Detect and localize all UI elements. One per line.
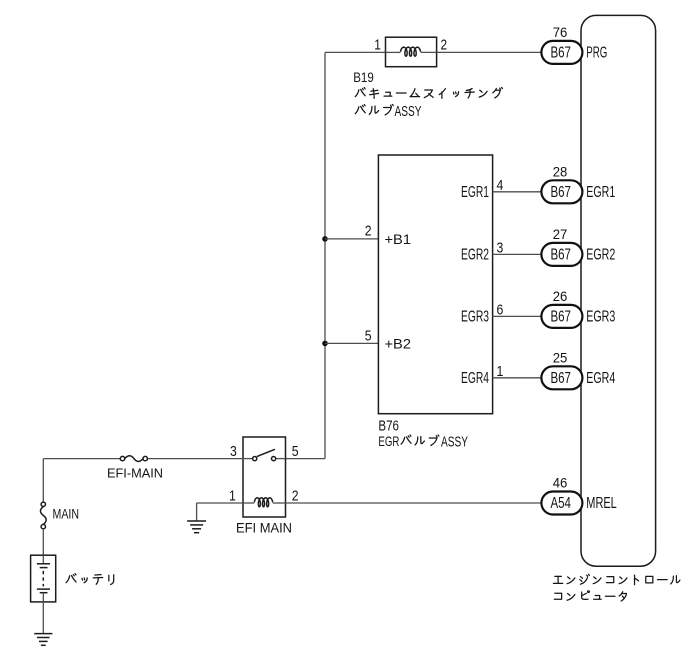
svg-text:EGR3: EGR3 <box>461 309 489 326</box>
relay switch contact left <box>253 457 257 461</box>
svg-text:26: 26 <box>553 289 568 304</box>
svg-text:2: 2 <box>292 487 299 504</box>
VSV B19 vacuum switching valve box <box>386 37 437 66</box>
svg-text:25: 25 <box>553 351 568 366</box>
wire B76 EGR3 to connector <box>493 315 542 317</box>
wire B19 pin2 to PRG connector <box>437 51 542 53</box>
battery label バッテリ <box>66 574 114 585</box>
connector oval B67 pin cavity <box>541 41 582 64</box>
label バルブ (of EGRバルブASSY) <box>401 435 439 446</box>
wire battery to ground <box>42 593 44 634</box>
svg-text:46: 46 <box>553 476 568 491</box>
wire relay internal pin3 lead <box>243 458 253 460</box>
svg-text:EGR: EGR <box>378 433 399 449</box>
wire B76 EGR4 to connector <box>493 377 542 379</box>
ECU caption line2 コンピュータ <box>554 591 626 601</box>
svg-text:EGR2: EGR2 <box>586 246 615 263</box>
wire bus to B19 pin1 <box>325 51 386 53</box>
wire fuse to relay pin3 <box>147 458 243 460</box>
wire relay coil lead right <box>273 502 286 504</box>
svg-text:76: 76 <box>553 25 568 40</box>
wire relay pin5 to bus <box>286 458 326 460</box>
wire battery corner to fuse <box>43 458 120 460</box>
label バルブ (valve) <box>355 104 393 115</box>
wire B76 EGR1 to connector <box>493 191 542 193</box>
connector oval B67 pin cavity <box>541 243 582 266</box>
ground (relay coil) <box>187 520 206 522</box>
VSV B19 solenoid coil <box>401 47 421 56</box>
ECU caption line1 エンジンコントロール <box>553 574 679 584</box>
svg-text:EGR3: EGR3 <box>586 308 615 325</box>
wire bus to B76 +B2 pin5 <box>325 342 378 344</box>
svg-text:PRG: PRG <box>586 44 607 61</box>
ground (battery) <box>34 633 52 635</box>
connector oval B67 pin cavity <box>541 180 582 203</box>
wire left bus lower <box>42 529 44 555</box>
ECU エンジンコントロールコンピュータ body <box>581 15 656 566</box>
svg-text:MAIN: MAIN <box>53 506 80 521</box>
connector oval A54 pin cavity <box>541 492 582 515</box>
svg-text:1: 1 <box>229 487 236 504</box>
wire B19 internal lead right <box>421 51 437 53</box>
wire relay coil lead left <box>243 502 254 504</box>
wire relay internal pin5 lead <box>276 458 286 460</box>
connector oval B67 pin cavity <box>541 305 582 328</box>
wire battery top stem <box>42 555 44 564</box>
svg-text:B67: B67 <box>550 247 571 264</box>
wire relay pin2 to MREL connector <box>286 502 542 504</box>
label バキュームスイッチング <box>355 87 502 98</box>
svg-text:+B2: +B2 <box>385 336 412 352</box>
svg-text:5: 5 <box>365 328 372 345</box>
wire bus to B76 +B1 pin2 <box>325 238 378 240</box>
relay EFI MAIN box <box>243 437 286 517</box>
connector oval B67 pin cavity <box>541 366 582 389</box>
svg-text:6: 6 <box>497 302 504 319</box>
svg-text:A54: A54 <box>550 495 571 512</box>
svg-text:B67: B67 <box>550 45 571 62</box>
svg-text:EGR2: EGR2 <box>461 247 489 264</box>
svg-text:3: 3 <box>497 240 504 257</box>
junction node to +B2 <box>322 341 328 347</box>
relay switch arm <box>257 449 275 456</box>
svg-text:2: 2 <box>441 38 448 54</box>
svg-text:MREL: MREL <box>586 495 617 512</box>
svg-text:1: 1 <box>497 363 504 380</box>
svg-text:27: 27 <box>553 227 568 242</box>
svg-text:B67: B67 <box>550 370 571 387</box>
fuse EFI-MAIN <box>120 456 124 460</box>
svg-text:EGR4: EGR4 <box>461 370 489 387</box>
svg-text:B67: B67 <box>550 184 571 201</box>
svg-text:2: 2 <box>365 223 372 240</box>
battery バッテリ box <box>31 555 56 602</box>
svg-text:4: 4 <box>497 177 504 194</box>
wire +B vertical bus <box>324 52 326 458</box>
relay switch contact right <box>272 457 276 461</box>
EGR valve assembly B76 box <box>378 155 492 414</box>
svg-text:5: 5 <box>292 443 299 460</box>
svg-text:EGR1: EGR1 <box>586 184 615 201</box>
junction node to +B1 <box>322 236 328 242</box>
wire left bus upper <box>42 459 44 503</box>
svg-text:EGR1: EGR1 <box>461 184 489 201</box>
svg-text:B19: B19 <box>353 69 374 85</box>
svg-text:EFI-MAIN: EFI-MAIN <box>107 466 163 481</box>
svg-text:28: 28 <box>553 165 568 180</box>
fusible link MAIN <box>41 502 45 506</box>
svg-text:EFI MAIN: EFI MAIN <box>236 521 292 536</box>
svg-text:EGR4: EGR4 <box>586 370 615 387</box>
svg-text:1: 1 <box>374 38 381 54</box>
wire B76 EGR2 to connector <box>493 253 542 255</box>
svg-text:ASSY: ASSY <box>441 434 468 450</box>
svg-text:3: 3 <box>230 443 237 460</box>
wire relay pin1 to ground <box>197 502 243 504</box>
wire ground stem <box>196 503 198 521</box>
svg-text:ASSY: ASSY <box>395 104 422 120</box>
svg-text:B67: B67 <box>550 309 571 326</box>
svg-text:+B1: +B1 <box>385 231 412 247</box>
wire B19 internal lead left <box>386 51 401 53</box>
